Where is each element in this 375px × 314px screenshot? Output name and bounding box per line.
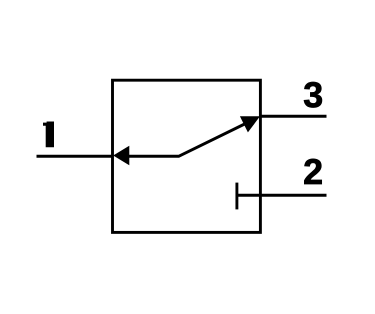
arrowhead at pin 3 contact (pole tip) [240, 116, 260, 132]
pin 1 lead wire [37, 155, 113, 158]
pin 2 fixed contact bar [235, 183, 238, 210]
pin 2 label [304, 159, 321, 184]
moving contact (common pole) wire [120, 120, 252, 156]
pin 2 lead wire [237, 194, 327, 197]
pin 3 lead wire [260, 115, 326, 118]
arrowhead at pin 1 end of pole [113, 146, 129, 166]
pin 3 label [304, 82, 322, 108]
pin 1 label [43, 122, 54, 148]
switch body box [113, 80, 261, 232]
